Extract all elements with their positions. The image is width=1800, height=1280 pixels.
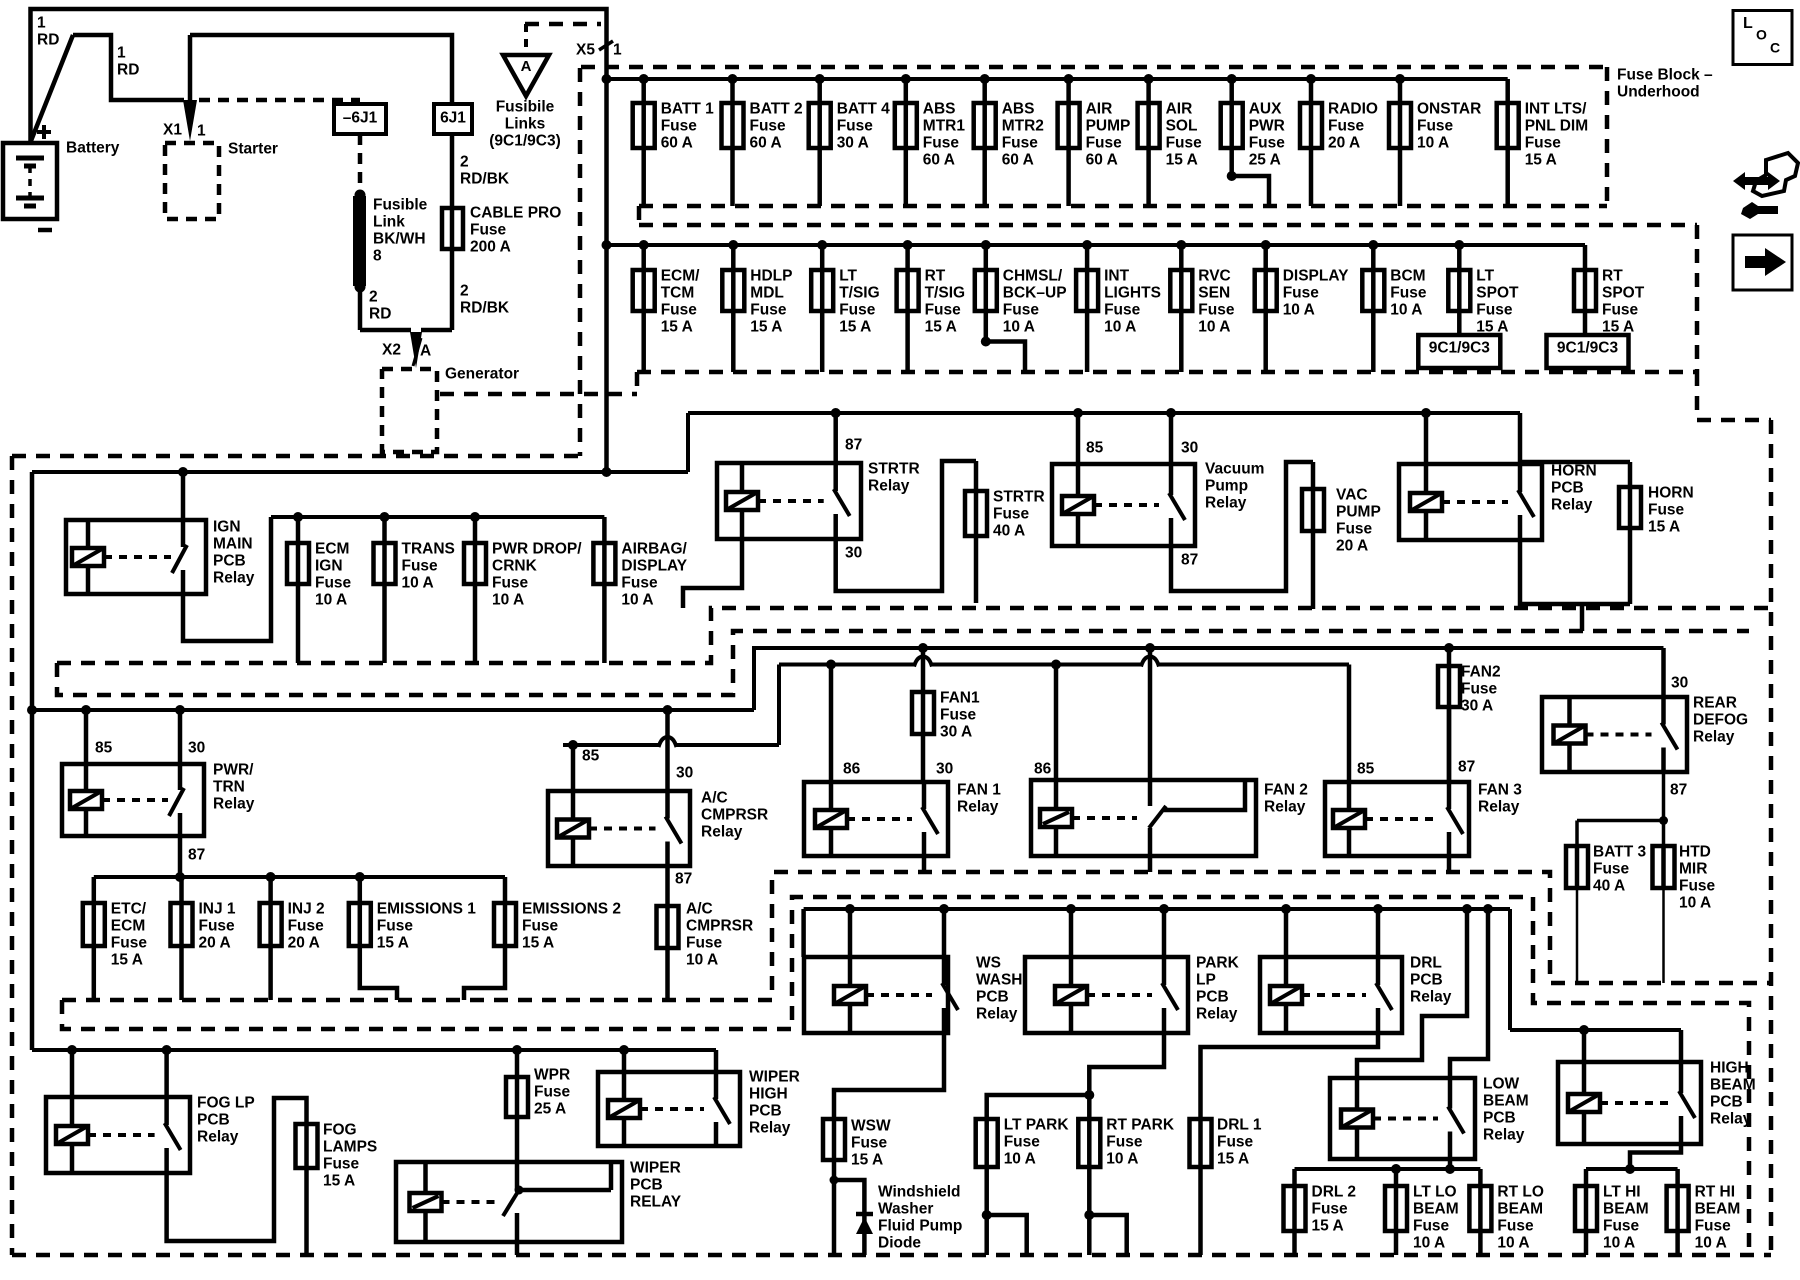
svg-text:WPRFuse25 A: WPRFuse25 A xyxy=(534,1067,571,1118)
svg-text:30: 30 xyxy=(676,765,693,782)
svg-text:HTDMIRFuse10 A: HTDMIRFuse10 A xyxy=(1679,844,1716,912)
svg-text:85: 85 xyxy=(582,748,600,765)
svg-text:9C1/9C3: 9C1/9C3 xyxy=(1557,340,1619,357)
svg-text:FAN 3Relay: FAN 3Relay xyxy=(1478,782,1522,816)
svg-text:A: A xyxy=(521,58,532,75)
svg-text:30: 30 xyxy=(845,545,862,562)
svg-text:–6J1: –6J1 xyxy=(343,110,378,127)
svg-text:FAN 2Relay: FAN 2Relay xyxy=(1264,782,1308,816)
svg-text:6J1: 6J1 xyxy=(440,110,466,127)
svg-text:85: 85 xyxy=(1357,761,1375,778)
svg-text:ECMIGNFuse10 A: ECMIGNFuse10 A xyxy=(315,541,352,609)
svg-text:X1: X1 xyxy=(163,122,182,139)
svg-text:9C1/9C3: 9C1/9C3 xyxy=(1429,340,1491,357)
svg-text:INJ 2Fuse20 A: INJ 2Fuse20 A xyxy=(288,901,325,952)
svg-text:AUXPWRFuse25 A: AUXPWRFuse25 A xyxy=(1249,101,1286,169)
svg-text:87: 87 xyxy=(675,871,692,888)
svg-text:Starter: Starter xyxy=(228,141,278,158)
svg-text:30: 30 xyxy=(1181,440,1198,457)
svg-text:O: O xyxy=(1756,26,1767,42)
svg-text:INJ 1Fuse20 A: INJ 1Fuse20 A xyxy=(199,901,236,952)
svg-text:A: A xyxy=(420,343,431,360)
svg-text:Generator: Generator xyxy=(445,366,519,383)
svg-text:85: 85 xyxy=(1086,440,1104,457)
svg-text:87: 87 xyxy=(1670,782,1687,799)
svg-text:30: 30 xyxy=(1671,675,1688,692)
svg-text:30: 30 xyxy=(188,740,205,757)
svg-text:30: 30 xyxy=(936,761,953,778)
svg-text:85: 85 xyxy=(95,740,113,757)
svg-text:1: 1 xyxy=(197,123,206,140)
svg-text:X2: X2 xyxy=(382,342,401,359)
svg-text:87: 87 xyxy=(1458,759,1475,776)
svg-text:1: 1 xyxy=(613,42,622,59)
svg-text:X5: X5 xyxy=(576,42,595,59)
svg-text:RVCSENFuse10 A: RVCSENFuse10 A xyxy=(1198,268,1235,336)
svg-text:ETC/ECMFuse15 A: ETC/ECMFuse15 A xyxy=(111,901,148,969)
svg-text:BCMFuse10 A: BCMFuse10 A xyxy=(1390,268,1427,319)
svg-text:FAN 1Relay: FAN 1Relay xyxy=(957,782,1001,816)
svg-text:Battery: Battery xyxy=(66,140,120,157)
svg-text:86: 86 xyxy=(1034,761,1052,778)
svg-text:Fuse Block –Underhood: Fuse Block –Underhood xyxy=(1617,67,1713,101)
svg-text:87: 87 xyxy=(845,437,862,454)
svg-text:87: 87 xyxy=(188,847,205,864)
svg-text:L: L xyxy=(1743,15,1753,32)
svg-text:87: 87 xyxy=(1181,552,1198,569)
svg-text:C: C xyxy=(1770,39,1780,55)
svg-text:86: 86 xyxy=(843,761,861,778)
